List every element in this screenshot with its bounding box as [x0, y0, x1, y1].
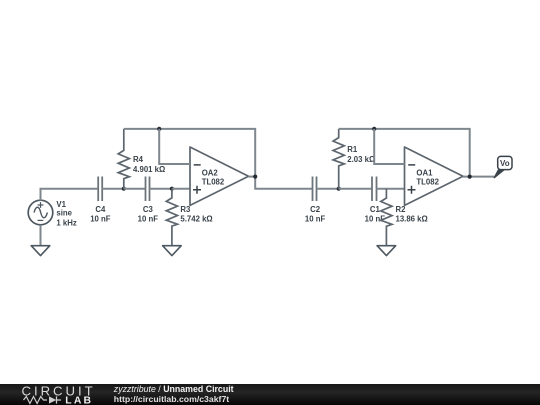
capacitor C4 — [98, 177, 102, 202]
resistor R4 — [118, 129, 129, 189]
node B — [170, 187, 174, 191]
wire C2 to node C — [317, 188, 339, 190]
node A — [122, 187, 126, 191]
svg-text:LAB: LAB — [65, 396, 93, 405]
ground (V1) — [31, 246, 50, 256]
svg-text:R1: R1 — [347, 145, 358, 154]
OA1 minus — [408, 164, 415, 166]
wire node C to C1 — [339, 188, 372, 190]
svg-text:C1: C1 — [370, 205, 381, 214]
svg-text:R4: R4 — [133, 155, 144, 164]
op-amp OA2 — [190, 147, 249, 205]
wire minus input OA1 — [374, 129, 404, 164]
wire OA2 output — [249, 176, 256, 178]
wire V1 bottom — [40, 225, 42, 246]
svg-text:10 nF: 10 nF — [138, 215, 159, 224]
svg-text:TL082: TL082 — [202, 178, 225, 187]
voltage source V1 — [28, 200, 53, 225]
svg-text:10 nF: 10 nF — [90, 215, 111, 224]
wire C3 to node B — [150, 188, 172, 190]
svg-text:5.742 kΩ: 5.742 kΩ — [180, 215, 212, 224]
wire minus input OA2 — [159, 129, 190, 164]
node top stage2 — [372, 127, 376, 131]
svg-text:R3: R3 — [180, 205, 191, 214]
node C — [337, 187, 341, 191]
op-amp OA1 — [405, 147, 464, 205]
capacitor C3 — [146, 177, 150, 202]
footer bar — [0, 384, 540, 405]
node OA2 output — [253, 175, 257, 179]
node top stage1 — [157, 127, 161, 131]
wire V1 top to main — [41, 189, 98, 201]
ground (R2) — [377, 246, 396, 256]
ground (R3) — [163, 246, 182, 256]
top feedback wire stage1 — [124, 129, 313, 189]
top feedback wire stage2 — [339, 129, 470, 177]
svg-text:C4: C4 — [95, 205, 106, 214]
Vo flag pointer — [494, 170, 505, 179]
svg-text:13.86 kΩ: 13.86 kΩ — [396, 214, 428, 223]
wire C1 to OA1 + input — [377, 188, 405, 190]
svg-text:C3: C3 — [143, 205, 154, 214]
wire C4 to node A — [102, 188, 124, 190]
svg-text:OA2: OA2 — [202, 169, 219, 178]
svg-text:TL082: TL082 — [416, 178, 439, 187]
svg-text:Vo: Vo — [500, 159, 510, 168]
svg-text:10 nF: 10 nF — [305, 215, 326, 224]
svg-text:OA1: OA1 — [416, 169, 433, 178]
OA2 plus — [193, 186, 201, 194]
resistor R2 — [381, 189, 392, 246]
CircuitLab logo — [0, 384, 100, 405]
wire node A to C3 — [124, 188, 146, 190]
capacitor C2 — [313, 177, 317, 202]
OA2 minus — [194, 164, 201, 166]
svg-text:sine: sine — [56, 208, 72, 217]
OA1 plus — [408, 186, 416, 194]
svg-text:4.901 kΩ: 4.901 kΩ — [133, 165, 165, 174]
resistor R3 — [166, 189, 177, 246]
svg-text:C2: C2 — [310, 205, 321, 214]
wire OA1 output — [463, 176, 494, 178]
Vo flag box — [498, 156, 512, 169]
svg-text:1 kHz: 1 kHz — [56, 218, 76, 227]
resistor R1 — [333, 129, 344, 189]
wire node B to OA2 + input — [172, 188, 190, 190]
node OA1 output — [468, 175, 472, 179]
svg-text:2.03 kΩ: 2.03 kΩ — [347, 155, 375, 164]
capacitor C1 — [372, 177, 377, 202]
